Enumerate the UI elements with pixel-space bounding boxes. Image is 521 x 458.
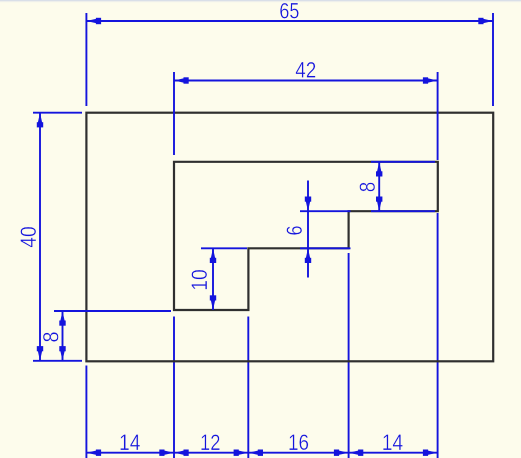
dimension 65 extension line left: [85, 13, 87, 106]
dimension 10 dimension line: [212, 248, 214, 310]
svg-text:65: 65: [279, 0, 299, 24]
bottom dimensions extension line at x=248.3: [247, 317, 249, 458]
bottom dimension 16/14 arrowhead pair at x=348.6: [334, 450, 363, 456]
dimension 40 extension line bottom (shared with dimension 8 left): [33, 360, 82, 362]
bottom dimensions extension line at x=174: [173, 317, 175, 458]
dimension 65 dimension line: [86, 20, 493, 22]
dimension 6 arrowhead bottom (outside, pointing up): [305, 248, 311, 263]
dimension 10 arrowhead bottom: [210, 295, 216, 310]
bottom dimensions dimension line: [86, 452, 437, 454]
dimension 6 extension line bottom: [300, 247, 351, 249]
svg-text:14: 14: [382, 430, 404, 455]
dimension 40 dimension line: [39, 113, 41, 361]
dimension 42 extension line right lower part (also extension for bottom 14): [437, 213, 439, 458]
dimension 8 right arrowhead top: [376, 162, 382, 177]
dimension 8 left arrowhead bottom: [59, 346, 65, 361]
svg-text:8: 8: [38, 332, 63, 343]
svg-text:40: 40: [16, 226, 41, 248]
dimension 8 right extension line bottom: [371, 210, 435, 212]
dimension 6 dimension line (arrows outside): [307, 181, 309, 278]
dimension 8 right arrowhead bottom: [376, 197, 382, 212]
bottom dimension 14 arrowhead left: [86, 450, 101, 456]
dimension 8 left extension line top: [54, 310, 171, 312]
dimension 8 right value label (rotated): [355, 182, 380, 193]
svg-text:42: 42: [295, 58, 316, 83]
svg-text:12: 12: [200, 430, 221, 455]
dimension 65 extension line right: [492, 13, 494, 106]
part outline outer rectangle: [86, 113, 493, 362]
dimension 8 right extension line top: [371, 161, 435, 163]
bottom dimension 12/16 arrowhead pair at x=248.3: [234, 450, 263, 456]
dimension 42 extension line left: [173, 72, 175, 155]
dimension 42 dimension line: [174, 80, 438, 82]
dimension 40 arrowhead top: [37, 113, 43, 128]
bottom dimension 14 value label right: [382, 430, 404, 455]
bottom dimension 12 value label: [200, 430, 221, 455]
bottom dimension 14 value label: [119, 430, 141, 455]
dimension 42 value label: [295, 58, 316, 83]
bottom dimensions extension line at x=348.6: [348, 253, 350, 458]
dimension 65 arrowhead right: [478, 18, 493, 24]
dimension 42 arrowhead left: [174, 77, 189, 83]
svg-text:16: 16: [288, 430, 309, 455]
dimension 6 extension line top: [300, 210, 351, 212]
dimension 6 value label (rotated): [282, 226, 307, 236]
dimension 8 left arrowhead top: [59, 311, 65, 326]
dimension 40 value label (rotated): [16, 226, 41, 248]
dimension 10 extension line top: [201, 247, 247, 249]
dimension 8 right dimension line: [378, 162, 380, 211]
svg-text:10: 10: [187, 269, 212, 291]
dimension 8 left dimension line: [62, 311, 64, 361]
dimension 8 left value label (rotated): [38, 332, 63, 343]
svg-text:8: 8: [355, 182, 380, 193]
bottom dimension 14/12 arrowhead pair at x=174: [159, 450, 188, 456]
svg-text:14: 14: [119, 430, 141, 455]
part inner step profile: [174, 162, 438, 310]
dimension 10 value label (rotated): [187, 269, 212, 291]
bottom dimensions extension line at x=86.4: [85, 366, 87, 458]
dimension 42 extension line right upper part: [437, 72, 439, 160]
dimension 40 extension line top: [33, 112, 82, 114]
bottom dimension 16 value label: [288, 430, 309, 455]
dimension 65 value label: [279, 0, 299, 24]
dimension 65 arrowhead left: [86, 18, 101, 24]
dimension 10 arrowhead top: [210, 248, 216, 263]
svg-text:6: 6: [282, 226, 307, 236]
bottom dimension 14 arrowhead right: [423, 450, 438, 456]
dimension 40 arrowhead bottom: [37, 346, 43, 361]
dimension 42 arrowhead right: [423, 77, 438, 83]
dimension 6 arrowhead top (outside, pointing down): [305, 197, 311, 212]
